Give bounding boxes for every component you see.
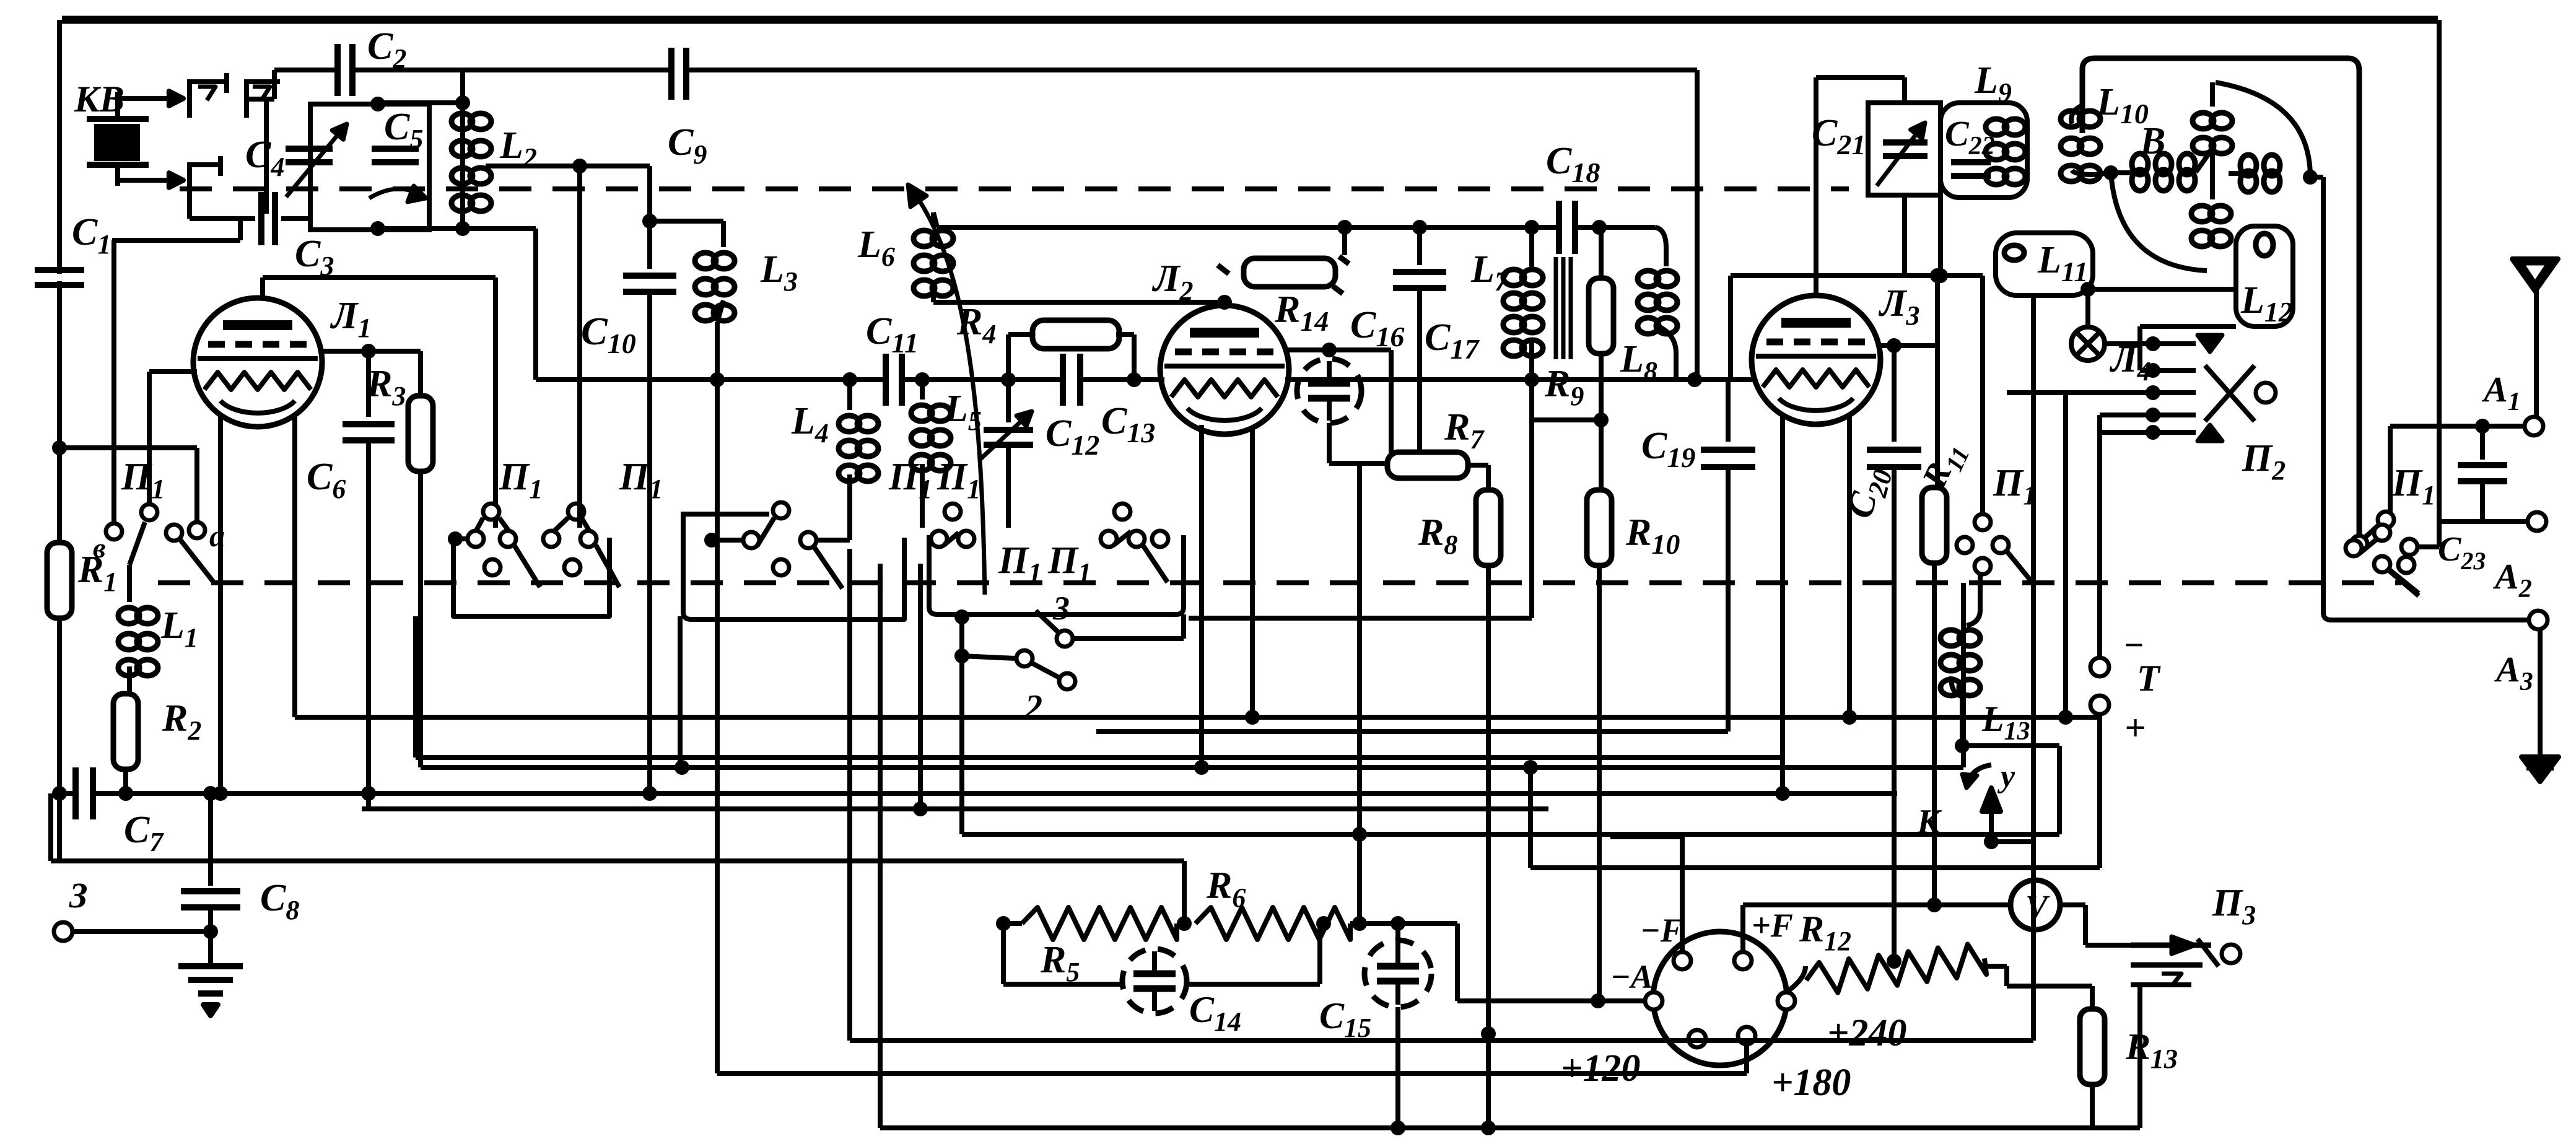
svg-text:+F: +F <box>1752 907 1793 944</box>
capacitor C7 <box>79 786 89 801</box>
wire L6 bottom to grid cap wire <box>931 286 936 302</box>
IF core lines <box>1554 257 1558 359</box>
wire socket bottom right <box>1744 1044 1749 1073</box>
resistor R3 <box>418 362 423 398</box>
loop coil center column <box>2193 113 2214 129</box>
wire -F up <box>1680 837 1685 952</box>
capacitor C6 <box>366 351 371 417</box>
resistor R12 <box>1804 943 1986 997</box>
inductor L1 <box>127 565 132 602</box>
wire R2 to bus <box>123 769 128 793</box>
wire bus h y1390 <box>51 858 1184 863</box>
resistor R14 <box>1218 265 1229 274</box>
wire bus y1733 <box>717 1071 1747 1076</box>
jack plug upper <box>190 73 227 118</box>
resistor R8 <box>1476 490 1501 565</box>
switch P2 contacts <box>2198 335 2222 352</box>
L9 C22 box <box>1941 103 2027 198</box>
voltmeter V <box>2011 880 2060 930</box>
capacitor C4 variable <box>286 146 333 152</box>
wire bus b y1181 <box>1096 729 1728 734</box>
wire C10 chain <box>647 166 652 221</box>
wire box top to L2 top <box>378 100 463 105</box>
terminal A3 <box>2529 611 2548 629</box>
wire left border vertical <box>57 20 62 861</box>
wire C21 bottom <box>1902 195 1907 276</box>
resistor R9 <box>1599 227 1604 277</box>
counterpoise <box>2538 629 2543 757</box>
crystal holder <box>87 116 149 122</box>
wire A2 <box>2439 519 2527 524</box>
resistor R7 <box>1391 463 1396 468</box>
wire box bottom to L2 bottom <box>378 226 463 231</box>
grid leak R4 resistor <box>1006 334 1011 380</box>
capacitor C10 <box>647 221 652 269</box>
switch P1 group C <box>773 502 789 518</box>
wire K arrow link <box>2057 746 2062 834</box>
wire agc to -A <box>1455 923 1460 1001</box>
wire loop right down <box>2321 177 2326 533</box>
inductor L11 box <box>1996 233 2093 295</box>
wiper y arrow <box>1967 765 1991 788</box>
terminal A1 <box>2525 417 2543 435</box>
svg-text:а: а <box>209 518 225 553</box>
capacitor C9 <box>675 66 683 81</box>
wire R12 right <box>1985 964 2007 969</box>
svg-text:+180: +180 <box>1771 1062 1851 1104</box>
tube socket plug <box>1653 932 1787 1065</box>
tube L3 filament drops <box>1780 414 1785 793</box>
capacitor C5 variable <box>372 146 419 152</box>
arrow K <box>1989 811 1994 842</box>
wire top border <box>62 16 2438 24</box>
wire tap y421 <box>1731 273 1983 278</box>
switch P1 contact group 2 <box>568 504 584 520</box>
wire top line C2-C9 <box>274 68 338 72</box>
svg-text:+: + <box>2124 707 2146 748</box>
wire loop column stub <box>2210 82 2215 107</box>
wire 3 to C8 <box>72 929 211 934</box>
loop antenna frame <box>2082 58 2359 535</box>
wire L11 to L12 <box>2080 282 2095 297</box>
resistor R10 <box>1599 420 1604 490</box>
wire bus y1401 <box>1530 865 2100 870</box>
wire grid cap wire Л2 <box>933 300 1225 305</box>
wire bus c y1223 <box>416 755 1783 760</box>
capacitor C18 <box>1563 220 1571 235</box>
inductor L4 <box>847 380 852 410</box>
capacitor C14 bypass <box>1122 949 1187 1013</box>
capacitor C2 <box>341 63 349 77</box>
switch 2 contact <box>954 609 969 624</box>
inductor L10 <box>2071 105 2082 124</box>
jack P3 ground tri <box>2162 974 2181 986</box>
wire C8 ground <box>208 932 213 964</box>
capacitor C22 <box>1951 159 1991 165</box>
switch P1 contact group 1 <box>483 504 499 520</box>
svg-text:T: T <box>2137 658 2161 699</box>
node box bottom <box>370 221 385 236</box>
node box top <box>370 97 385 111</box>
wire L3 top cap <box>1814 77 1818 296</box>
wire switch drop from C3 line <box>493 277 498 528</box>
svg-text:З: З <box>69 875 88 915</box>
wire L11 box down <box>2031 295 2036 1041</box>
capacitor C23 <box>2480 426 2485 460</box>
jack plug lower <box>190 156 220 201</box>
resistor R11 <box>1935 346 1940 487</box>
node border switch tap <box>52 440 67 455</box>
inductor L6 <box>914 230 935 247</box>
wire +F to V line <box>1740 905 1745 952</box>
wire bus to L3 <box>1750 377 1755 382</box>
wire drop x1486 <box>918 564 923 809</box>
tube U L2 <box>1160 305 1289 434</box>
wire L13 feed <box>1978 573 1983 610</box>
resistor R13 <box>2090 986 2095 1010</box>
wire C16 bottom loop <box>1327 423 1332 463</box>
wire top cap stub <box>1222 302 1227 307</box>
antenna symbol <box>2534 285 2539 416</box>
loop coil row right <box>2240 155 2256 176</box>
svg-text:2: 2 <box>1024 688 1042 727</box>
node loop right <box>2303 170 2318 185</box>
wire L7 bottom horizontal <box>1189 616 1532 621</box>
tube U L3 <box>1752 295 1880 424</box>
capacitor C13 <box>1067 372 1076 387</box>
svg-text:К: К <box>1916 803 1942 841</box>
wire L2 switch drop <box>577 166 582 528</box>
capacitor coupling (jack) <box>265 211 271 226</box>
wire drop x1098 <box>678 616 683 767</box>
loop arc lower <box>2111 173 2207 271</box>
wire lamp to P2 <box>2105 341 2196 346</box>
wire jack vertical join <box>264 99 269 214</box>
capacitor C20 <box>1892 346 1897 442</box>
switch box right <box>2323 526 2331 620</box>
capacitor C8 <box>208 793 213 886</box>
wire A1 <box>2390 424 2525 429</box>
wire L1 grid return <box>149 369 197 374</box>
inductor L13 <box>1967 610 1980 626</box>
inductor L3 <box>721 221 726 247</box>
switch P1 group B <box>1101 531 1117 547</box>
wire bus y1821 <box>880 1125 2140 1130</box>
terminal T minus <box>2090 658 2109 676</box>
svg-text:3: 3 <box>1052 590 1070 627</box>
tuning gang box <box>310 104 429 230</box>
wire to L3 <box>650 219 723 224</box>
switch box three <box>683 512 904 619</box>
wire bus f y1306 <box>362 806 1548 811</box>
resistor R1 <box>47 543 72 618</box>
wire cap to tuning box <box>281 216 310 221</box>
wire bus y1680 <box>850 1038 2033 1043</box>
wire agc line <box>1003 921 1022 926</box>
terminal T plus <box>2090 696 2109 714</box>
switch box <box>453 538 609 616</box>
wire bus g y1347 <box>962 832 2059 837</box>
wire L1 filament left <box>218 414 223 793</box>
switch box middle <box>929 535 1184 614</box>
tube U L1 <box>193 298 322 427</box>
wire L2 plate side <box>1283 347 1329 352</box>
switch P1 contact a <box>189 522 205 538</box>
svg-text:−F: −F <box>1640 912 1683 949</box>
capacitor C1 <box>52 274 67 281</box>
inductor L2 <box>460 103 465 229</box>
resistor R6 <box>1195 907 1350 940</box>
arrow to jack upper <box>118 96 183 101</box>
ground symbol <box>178 963 243 969</box>
switch P1 near R11 <box>1975 514 1991 530</box>
wire drop x671 <box>413 616 418 758</box>
wire P2 line3 down <box>2063 393 2068 717</box>
wire anode line y=367 <box>937 225 1560 230</box>
capacitor C16 bypass <box>1297 359 1361 423</box>
wire down to IF bus right <box>1695 70 1700 380</box>
wire C21 top link <box>1816 75 1905 80</box>
wire L2 right to switch drop <box>486 164 650 168</box>
loop coil row left <box>2132 154 2148 175</box>
svg-text:+240: +240 <box>1827 1012 1906 1054</box>
loop arc upper <box>2216 82 2310 177</box>
wire drop L4 bottom <box>847 538 852 543</box>
wire L2 top to top line <box>460 70 465 103</box>
switch P1 group A <box>931 531 947 547</box>
wire bus e y1281 (C7 bus) <box>59 791 74 796</box>
terminal A2 <box>2528 512 2546 531</box>
wire A3 <box>2330 618 2529 622</box>
wire L3 down long <box>715 322 720 1073</box>
wire bus a y1158 <box>295 715 2100 720</box>
dashed screening line upper <box>180 186 1849 191</box>
switch P1 in box <box>2346 540 2362 556</box>
inductor L7 <box>1529 227 1534 270</box>
tube L2 filament drops <box>1199 425 1204 767</box>
wire C14 loop <box>1001 923 1006 984</box>
capacitor C11 <box>889 372 898 387</box>
capacitor C19 <box>1726 380 1731 442</box>
wire P2 line5 down <box>2097 415 2102 658</box>
resistor R5 <box>1022 907 1177 940</box>
wire box bottom to tap wire <box>1938 198 1943 276</box>
capacitor C17 <box>1417 227 1422 265</box>
wire C3 grid cap line <box>263 275 496 280</box>
terminal 3 ground post <box>54 922 72 941</box>
resistor R2 <box>113 694 138 769</box>
wire L1 filament right <box>292 416 297 717</box>
wire C16 chain down <box>1357 463 1362 923</box>
wire drop x1421 to bottom bus <box>878 564 883 1128</box>
wire jack lower to series cap <box>187 201 192 219</box>
wire R3 down <box>418 469 423 767</box>
wire R12 left to +F pin <box>1786 966 1805 992</box>
wire R7 right to R8 <box>1468 463 1488 468</box>
variometer arrow R4 long <box>914 192 985 595</box>
switch P2 ladder <box>2140 324 2236 329</box>
wire main bus <box>536 377 884 382</box>
inductor L5 <box>920 380 925 400</box>
capacitor C21 variable box <box>1868 103 1941 195</box>
svg-text:V: V <box>2025 888 2050 925</box>
wire L1 grid side <box>321 349 421 354</box>
inductor L12 box <box>2236 226 2293 326</box>
wire L3 grid right <box>1880 343 1937 348</box>
inductor L8 <box>1655 227 1666 266</box>
svg-text:−A: −A <box>1610 958 1653 995</box>
wire drop L4 column <box>847 549 852 1041</box>
lamp L4 dial <box>2085 289 2090 327</box>
arrow to jack lower <box>118 178 183 183</box>
wire T plus down <box>2097 714 2102 868</box>
wire bus d y1239 <box>421 765 1963 770</box>
inductor L9 coil <box>1986 119 2007 135</box>
wire L6 top hook <box>933 212 937 227</box>
wire to switch P1a <box>59 445 197 450</box>
wire jack return feed <box>112 238 240 243</box>
dashed screening line lower <box>158 580 2401 585</box>
node loop left <box>2103 165 2118 180</box>
wire jack upper to C2 line <box>272 70 277 99</box>
wire right top vertical from border <box>2437 20 2442 522</box>
switch P1 armature <box>141 504 157 520</box>
wire V right <box>2060 902 2085 907</box>
svg-text:+120: +120 <box>1561 1047 1640 1089</box>
capacitor C12 variable <box>1006 380 1011 422</box>
capacitor C15 bypass <box>1395 923 1400 940</box>
wire L2 bottom bus to grid bus <box>463 226 536 231</box>
